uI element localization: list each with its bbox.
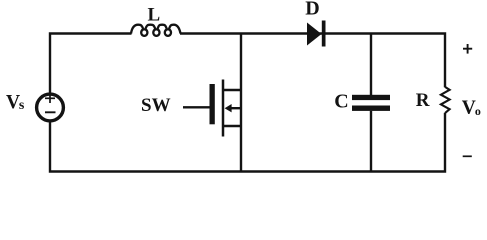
svg-text:R: R bbox=[416, 90, 430, 111]
svg-text:D: D bbox=[305, 0, 319, 20]
transistor SW body arrow head bbox=[225, 104, 232, 112]
diode D triangle anode bbox=[307, 23, 322, 46]
svg-text:Vs: Vs bbox=[6, 92, 25, 113]
resistor R zigzag bbox=[441, 87, 450, 113]
transistor SW gate lead wire bbox=[183, 106, 210, 108]
svg-text:Vo: Vo bbox=[462, 98, 481, 119]
voltage source plus sign bbox=[45, 94, 55, 103]
transistor SW body arrow shaft bbox=[230, 107, 242, 109]
svg-text:C: C bbox=[334, 91, 348, 113]
transistor SW drain stub bbox=[222, 89, 241, 91]
capacitor C top lead wire bbox=[370, 34, 372, 96]
wire top rail left segment (source to inductor) bbox=[50, 34, 132, 93]
output plus sign bbox=[463, 44, 472, 54]
wire bottom rail bbox=[50, 113, 445, 172]
voltage source minus sign bbox=[45, 111, 56, 113]
voltage source Vs circle bbox=[37, 94, 64, 121]
wire top rail right segment (inductor to diode to right rail) bbox=[180, 34, 445, 88]
output minus sign bbox=[463, 155, 472, 157]
transistor SW channel line bbox=[222, 80, 225, 137]
transistor SW drain-source vertical wire bbox=[240, 34, 242, 172]
svg-text:L: L bbox=[148, 5, 161, 26]
capacitor C bottom lead wire bbox=[370, 111, 372, 172]
transistor SW gate bar bbox=[210, 84, 215, 124]
capacitor C bottom plate bbox=[352, 106, 390, 111]
inductor L coil bbox=[131, 25, 181, 36]
transistor SW source stub bbox=[222, 125, 241, 127]
diode D cathode bar bbox=[322, 21, 326, 47]
capacitor C top plate bbox=[352, 95, 390, 100]
svg-text:SW: SW bbox=[141, 95, 171, 116]
